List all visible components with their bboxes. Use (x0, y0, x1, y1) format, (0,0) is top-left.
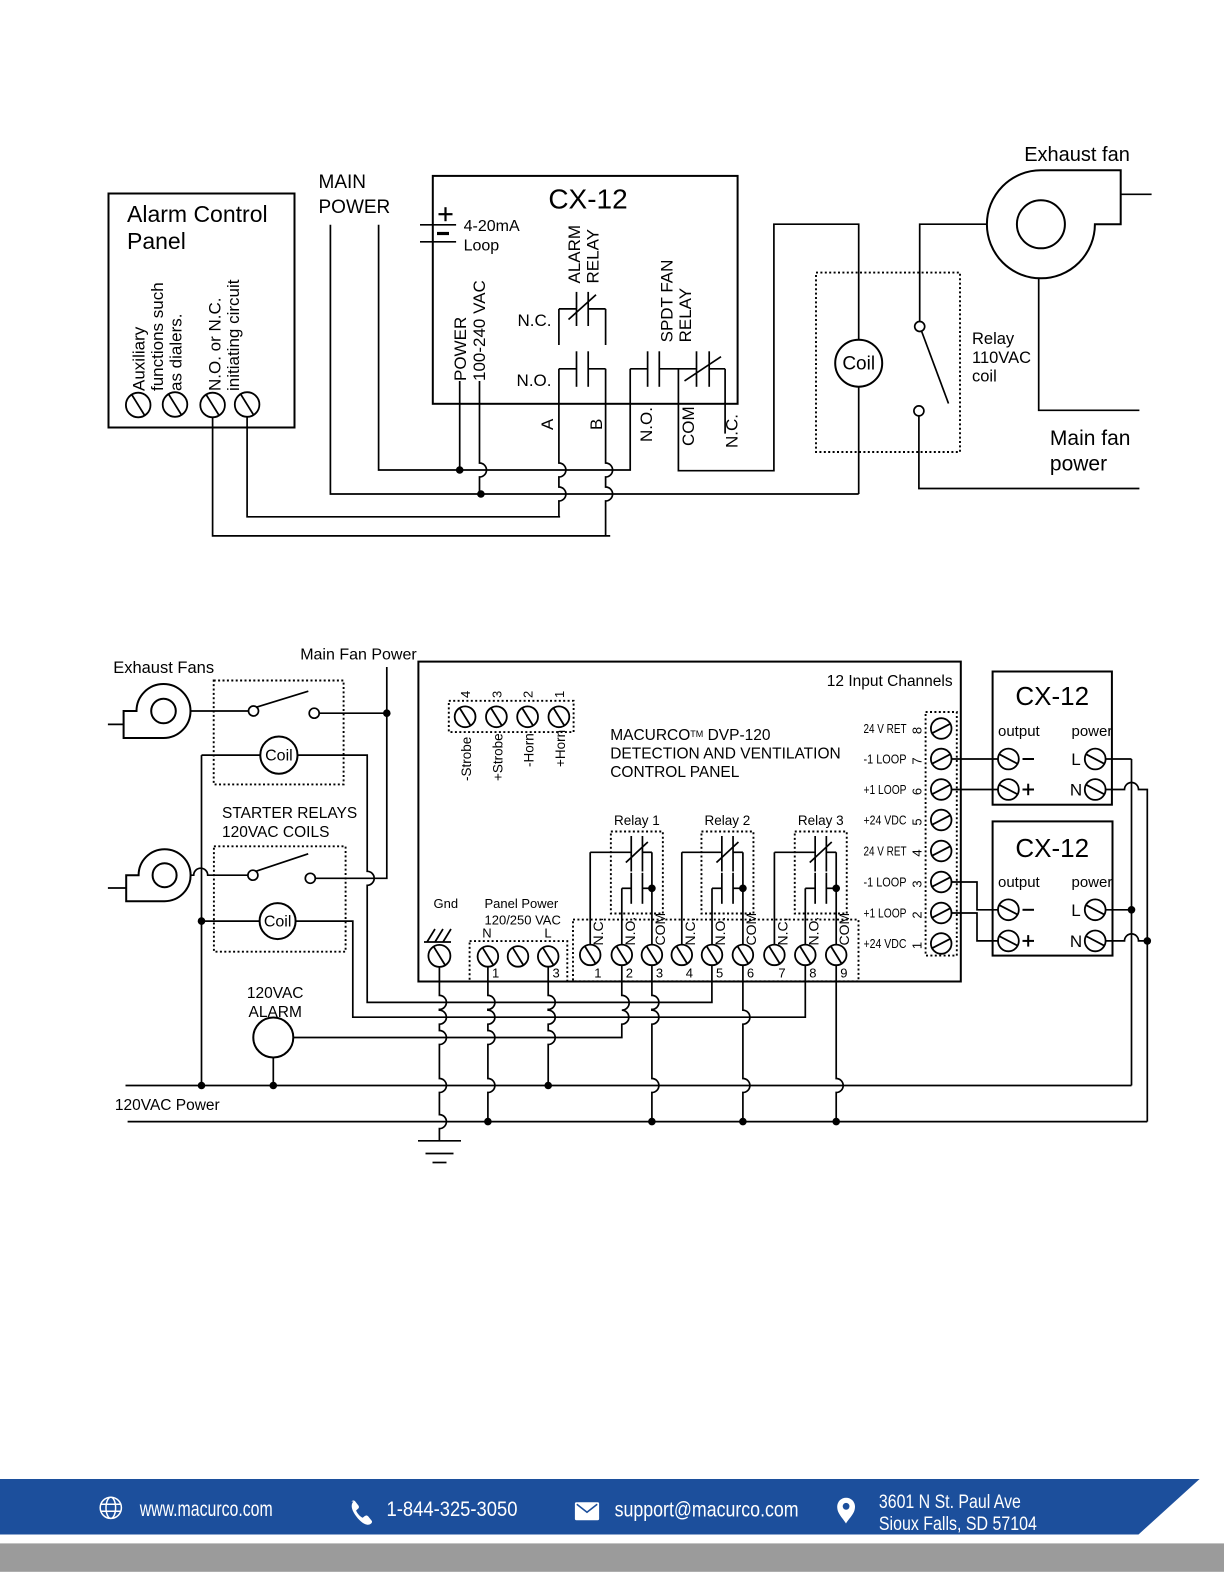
svg-text:120VAC Power: 120VAC Power (115, 1097, 220, 1114)
relay output dashed terminal box (573, 920, 859, 982)
junction dot power wire 2 on line 2 (477, 490, 485, 498)
input terminal 8 (24 V RET) (931, 718, 952, 739)
svg-text:+1 LOOP: +1 LOOP (864, 783, 907, 797)
panel power L terminal (538, 946, 559, 967)
120VAC power line 1 (126, 1085, 1132, 1087)
switch 1 blade (256, 691, 308, 707)
phone icon (352, 1501, 373, 1525)
wire: L bus vertical (1131, 759, 1133, 1086)
svg-text:coil: coil (972, 368, 997, 386)
input terminal 7 (-1 LOOP) (931, 749, 952, 770)
Relay 3 N.C. contact (774, 851, 815, 853)
unit 1 plus terminal (998, 779, 1019, 800)
output terminal 8 (N.O.) (795, 945, 816, 966)
wire: unit2 L to L bus (1106, 909, 1132, 911)
starter coil 2 circle (260, 903, 296, 939)
svg-text:B: B (587, 419, 606, 430)
Relay 1 COM leg (651, 852, 653, 944)
Relay 3 N.C. leg (773, 852, 775, 944)
svg-text:Relay 3: Relay 3 (798, 813, 844, 828)
svg-text:N.C.: N.C. (682, 918, 698, 946)
svg-text:4-20mA: 4-20mA (464, 218, 520, 235)
svg-text:COM: COM (836, 913, 852, 946)
wire: exhaust fan bottom to main fan power (1039, 278, 1140, 410)
wire B: alarm relay N.O. right leg (606, 369, 613, 537)
svg-text:support@macurco.com: support@macurco.com (615, 1499, 799, 1522)
svg-text:3: 3 (489, 691, 504, 698)
SPDT fan relay contacts (630, 368, 647, 370)
junction dot alarm on line 1 (270, 1082, 278, 1090)
panel power N terminal (478, 946, 499, 967)
wire: coil 1 right to DVP relay 2 N.O. terminal 5 (298, 755, 712, 1002)
svg-text:POWER: POWER (319, 197, 391, 218)
Relay 1 N.C. contact (590, 851, 631, 853)
svg-text:Exhaust Fans: Exhaust Fans (113, 659, 214, 677)
wire: fan 1 to switch 1 (191, 710, 249, 712)
svg-text:RELAY: RELAY (584, 229, 603, 284)
Relay 2 N.C. contact (682, 851, 722, 853)
input terminal 3 (-1 LOOP) (931, 872, 952, 893)
wire: panel N to line 2 (488, 967, 495, 1122)
input terminal 5 (+24 VDC) (931, 810, 952, 831)
svg-text:5: 5 (716, 966, 723, 981)
wire: terminal 9 COM3 to line 2 (836, 965, 843, 1121)
input terminal 6 (+1 LOOP) (931, 779, 952, 800)
fan 1 stub (108, 723, 124, 725)
svg-text:8: 8 (809, 966, 816, 981)
svg-text:N.O.: N.O. (805, 917, 821, 946)
wire: terminal 3 COM1 to line 2 (652, 965, 659, 1121)
exhaust fan blower (987, 170, 1121, 278)
Relay 3 dashed box (795, 832, 847, 914)
svg-text:functions such: functions such (148, 282, 167, 391)
wire: coil 2 left (202, 920, 260, 922)
wire: alarm bottom to line 1 (272, 1058, 274, 1086)
strobe/horn terminal 3 (486, 706, 507, 727)
unit 2 plus terminal (998, 931, 1019, 952)
svg-text:+24 VDC: +24 VDC (864, 814, 907, 828)
Relay 1 junction dot (648, 885, 656, 893)
svg-text:N: N (1070, 781, 1082, 800)
svg-text:+1 LOOP: +1 LOOP (864, 907, 907, 921)
svg-text:power: power (1072, 723, 1113, 740)
svg-text:MAIN: MAIN (319, 172, 367, 193)
CX-12 unit 2 box (993, 821, 1113, 955)
svg-text:24 V RET: 24 V RET (864, 845, 907, 859)
wire: strip 2 to unit2 plus (952, 913, 998, 941)
svg-text:1: 1 (552, 691, 567, 698)
Relay 2 N.O. contact (712, 887, 722, 889)
junction dot unit2 N on bus (1144, 937, 1152, 945)
output terminal 9 (COM) (826, 945, 847, 966)
svg-text:N.C.: N.C. (518, 311, 552, 330)
svg-text:3: 3 (553, 966, 560, 981)
relay coil circle (835, 340, 882, 387)
svg-text:POWER: POWER (451, 317, 470, 381)
Relay 1 dashed box (611, 832, 663, 914)
alarm panel terminal 4 (235, 392, 260, 417)
wire: fan 2 to switch 2 (191, 868, 248, 875)
svg-text:A: A (538, 418, 557, 430)
exhaust fan 2 blower (126, 849, 190, 901)
Relay 1 N.C. leg (589, 852, 591, 944)
fan 2 stub (108, 887, 126, 889)
junction dot power wire 1 on line 1 (456, 466, 464, 474)
alarm relay N.C. contact (558, 309, 560, 345)
alarm panel terminal 2 (163, 392, 188, 417)
unit 2 L terminal (1085, 899, 1106, 920)
input terminal 4 (24 V RET) (931, 841, 952, 862)
junction dot main fan power (383, 709, 391, 717)
svg-text:output: output (998, 874, 1041, 891)
output terminal 3 (COM) (642, 945, 663, 966)
svg-text:100-240 VAC: 100-240 VAC (470, 280, 489, 381)
svg-text:1: 1 (492, 966, 499, 981)
svg-text:4: 4 (910, 849, 925, 856)
output terminal 2 (N.O.) (612, 945, 633, 966)
minus sign (437, 232, 449, 235)
svg-text:L: L (1071, 750, 1080, 769)
unit 2 N terminal (1085, 931, 1106, 952)
svg-text:SPDT FAN: SPDT FAN (658, 260, 677, 343)
wire: SPDT N.O. leg down to line 1 (629, 369, 631, 404)
svg-text:+Strobe: +Strobe (490, 733, 505, 781)
strobe/horn terminal 4 (455, 706, 476, 727)
wire: alarm terminal 4 to relay contact A (247, 417, 560, 517)
strobe/horn terminal 2 (517, 706, 538, 727)
switch 1 contacts (249, 706, 259, 716)
alarm panel terminal 3 (200, 393, 225, 418)
120VAC power line 2 (128, 1121, 1148, 1123)
svg-text:Alarm Control: Alarm Control (127, 201, 268, 227)
svg-text:Sioux Falls, SD 57104: Sioux Falls, SD 57104 (879, 1514, 1037, 1535)
svg-text:COM: COM (679, 406, 698, 446)
wire: SPDT N.C. stub (724, 369, 726, 434)
svg-text:Gnd: Gnd (434, 896, 459, 911)
switch 2 contacts (248, 870, 258, 880)
svg-text:1-844-325-3050: 1-844-325-3050 (387, 1498, 518, 1521)
gnd chassis symbol (424, 941, 451, 943)
svg-text:-1 LOOP: -1 LOOP (864, 876, 907, 890)
svg-text:Relay: Relay (972, 330, 1015, 348)
svg-text:7: 7 (778, 966, 785, 981)
120VAC alarm bell circle (253, 1018, 293, 1058)
wire: switch bottom to main fan power line (919, 416, 1140, 489)
Relay 1 N.O. leg (621, 888, 623, 944)
wire: unit1 L to L bus (1106, 758, 1132, 760)
input terminal 2 (+1 LOOP) (931, 903, 952, 924)
wire: coil bottom to line 2 (858, 387, 860, 494)
Relay 2 dashed box (701, 832, 753, 914)
Relay 2 N.C. leg (681, 852, 683, 944)
output terminal 1 (N.C.) (580, 945, 601, 966)
svg-text:Main Fan Power: Main Fan Power (300, 647, 417, 664)
strobe horn dashed terminal box (449, 701, 574, 732)
junction dot L on line 1 (544, 1082, 552, 1090)
svg-text:3: 3 (656, 966, 663, 981)
relay switch contact circles (915, 322, 925, 332)
svg-text:+24 VDC: +24 VDC (864, 937, 907, 951)
wire: main power left conductor (330, 225, 858, 494)
svg-text:-Strobe: -Strobe (459, 737, 474, 781)
svg-text:6: 6 (747, 966, 754, 981)
svg-text:-1 LOOP: -1 LOOP (864, 753, 907, 767)
Relay 2 junction dot (739, 885, 747, 893)
Relay 3 junction dot (832, 885, 840, 893)
output terminal 6 (COM) (733, 945, 754, 966)
svg-text:4: 4 (458, 691, 473, 698)
svg-text:4: 4 (686, 966, 693, 981)
svg-text:STARTER RELAYS: STARTER RELAYS (222, 805, 357, 822)
svg-text:www.macurco.com: www.macurco.com (139, 1498, 273, 1521)
wire: alarm to DVP relay 1 N.O. terminal 2 (293, 965, 629, 1037)
relay switch blade (922, 331, 949, 404)
Relay 2 COM leg (742, 852, 744, 944)
wire: switch 1 to main fan power vertical (319, 712, 387, 714)
input channel dashed terminal strip (926, 712, 957, 956)
starter relay dashed box 2 (214, 846, 346, 951)
svg-text:5: 5 (910, 818, 925, 825)
wire: switch top to exhaust fan (920, 224, 987, 321)
unit 2 minus terminal (998, 899, 1019, 920)
wire: power vac lead 2 (480, 381, 487, 494)
svg-text:COM: COM (743, 913, 759, 946)
earth ground symbol (418, 1140, 461, 1142)
panel power dashed box (470, 941, 568, 981)
Relay 3 N.O. leg (804, 888, 806, 944)
svg-text:RELAY: RELAY (676, 288, 695, 343)
svg-text:1: 1 (594, 966, 601, 981)
alarm relay N.O. contact (559, 368, 577, 370)
svg-text:as dialers.: as dialers. (167, 314, 186, 391)
svg-text:power: power (1050, 452, 1107, 475)
Relay 1 N.O. contact (622, 887, 631, 889)
strobe/horn terminal 1 (549, 706, 570, 727)
wire: unit2 N to N bus (1106, 934, 1148, 941)
output terminal 7 (N.C.) (764, 945, 785, 966)
plus sign (439, 213, 453, 215)
svg-text:Relay 2: Relay 2 (705, 813, 751, 828)
svg-text:N.O.: N.O. (637, 407, 656, 442)
svg-text:CX-12: CX-12 (1015, 833, 1089, 863)
footer gray bar (0, 1543, 1224, 1571)
svg-text:N: N (1070, 932, 1082, 951)
svg-text:7: 7 (910, 757, 925, 764)
wire: main fan power vertical (315, 667, 387, 878)
svg-text:+Horn: +Horn (553, 730, 568, 767)
relay 110VAC dashed box (816, 273, 960, 452)
wire: terminal 6 COM2 to line 2 (743, 965, 750, 1121)
svg-text:L: L (1071, 901, 1080, 920)
svg-text:N.O.: N.O. (517, 371, 552, 390)
footer blue banner (0, 1479, 1200, 1535)
svg-text:CX-12: CX-12 (548, 184, 627, 215)
switch 2 blade (255, 854, 308, 872)
wire: alarm terminal 3 to relay contact B (213, 417, 611, 536)
svg-text:Relay 1: Relay 1 (614, 813, 660, 828)
wire: strip 3 to unit2 minus (952, 882, 998, 910)
svg-text:L: L (544, 926, 551, 941)
starter coil 1 circle (260, 737, 297, 774)
wire: strip 7 to unit1 minus (952, 758, 998, 760)
junction dot coil bus top (198, 917, 206, 925)
junction dot COM1 on line 2 (648, 1118, 656, 1126)
CX-12 top unit box (433, 176, 738, 404)
junction dot unit2 L on bus (1128, 906, 1136, 914)
output terminal 5 (N.O.) (702, 945, 723, 966)
svg-text:Coil: Coil (264, 914, 292, 931)
globe icon (100, 1497, 121, 1518)
exhaust fan 1 blower (124, 684, 191, 738)
alarm panel terminal 1 (126, 393, 151, 418)
svg-text:-Horn: -Horn (522, 733, 537, 767)
wire: gnd to earth ground (439, 967, 446, 1141)
svg-text:Loop: Loop (464, 237, 500, 254)
svg-text:Panel: Panel (127, 228, 186, 254)
svg-text:Coil: Coil (265, 748, 293, 765)
DVP-120 panel box (418, 662, 960, 982)
svg-text:2: 2 (910, 911, 925, 918)
svg-text:output: output (998, 723, 1041, 740)
gnd terminal (428, 945, 450, 967)
unit 1 N terminal (1085, 779, 1106, 800)
unit 1 minus terminal (998, 749, 1019, 770)
svg-text:Exhaust fan: Exhaust fan (1024, 144, 1130, 166)
unit 1 L terminal (1085, 749, 1106, 770)
wire: SPDT COM to relay coil top (678, 224, 858, 471)
starter relay dashed box 1 (214, 681, 344, 785)
wire: coil 1 left (202, 754, 261, 756)
svg-text:24 V RET: 24 V RET (864, 722, 907, 736)
svg-text:power: power (1072, 874, 1113, 891)
svg-text:CONTROL PANEL: CONTROL PANEL (610, 764, 740, 781)
svg-text:1: 1 (910, 942, 925, 949)
svg-text:3: 3 (910, 880, 925, 887)
svg-text:3601 N St. Paul Ave: 3601 N St. Paul Ave (879, 1492, 1021, 1513)
panel power mid terminal (508, 946, 529, 967)
wire: power vac lead 1 (459, 381, 461, 470)
svg-text:N.O. or N.C.: N.O. or N.C. (206, 297, 225, 391)
wire: panel L to line 1 (548, 967, 555, 1086)
CX-12 unit 1 box (993, 672, 1112, 805)
svg-text:Auxiliary: Auxiliary (130, 326, 149, 391)
wire: N bus from unit1 N (1106, 783, 1148, 1122)
svg-text:120VAC: 120VAC (247, 985, 304, 1002)
wire A: alarm relay N.O. left leg (559, 369, 566, 517)
svg-text:2: 2 (626, 966, 633, 981)
input terminal 1 (+24 VDC) (931, 933, 952, 954)
svg-text:Panel Power: Panel Power (485, 896, 559, 911)
4-20mA loop terminal plus lead (420, 224, 456, 226)
location pin icon (837, 1498, 855, 1524)
Relay 3 N.O. contact (805, 887, 815, 889)
wire: strip 6 to unit1 plus (952, 789, 998, 791)
svg-text:N.C.: N.C. (590, 918, 606, 946)
junction dot N on line 2 (484, 1118, 492, 1126)
svg-text:COM: COM (652, 913, 668, 946)
Relay 2 N.O. leg (711, 888, 713, 944)
exhaust fan output stub (1121, 193, 1152, 195)
svg-text:120VAC COILS: 120VAC COILS (222, 824, 329, 841)
svg-text:N: N (482, 926, 491, 941)
svg-text:6: 6 (910, 788, 925, 795)
svg-text:9: 9 (840, 966, 847, 981)
alarm control panel box (109, 194, 295, 428)
junction dot coil bus on line 1 (198, 1082, 206, 1090)
wire: main power right conductor (379, 225, 631, 470)
4-20mA loop terminal minus lead (420, 241, 456, 243)
svg-text:N.C.: N.C. (774, 918, 790, 946)
svg-text:DETECTION AND VENTILATION: DETECTION AND VENTILATION (610, 746, 841, 763)
wire: coil 2 right to DVP relay 3 N.O. terminal 8 (296, 921, 806, 1017)
svg-text:Coil: Coil (842, 354, 875, 375)
svg-text:12 Input Channels: 12 Input Channels (827, 673, 953, 690)
svg-text:initiating circuit: initiating circuit (224, 279, 243, 391)
svg-text:CX-12: CX-12 (1015, 681, 1089, 711)
svg-text:Main fan: Main fan (1050, 427, 1131, 450)
wire: coil bus vertical to 120VAC line 1 (201, 755, 203, 1085)
output terminal 4 (N.C.) (672, 945, 693, 966)
svg-text:ALARM: ALARM (565, 225, 584, 284)
envelope icon (575, 1502, 599, 1520)
junction dot COM2 on line 2 (739, 1118, 747, 1126)
svg-text:110VAC: 110VAC (972, 349, 1031, 367)
svg-text:8: 8 (910, 727, 925, 734)
svg-text:N.O.: N.O. (712, 917, 728, 946)
svg-text:N.O.: N.O. (622, 917, 638, 946)
Relay 3 COM leg (835, 852, 837, 944)
svg-text:2: 2 (521, 691, 536, 698)
junction dot COM3 on line 2 (832, 1118, 840, 1126)
